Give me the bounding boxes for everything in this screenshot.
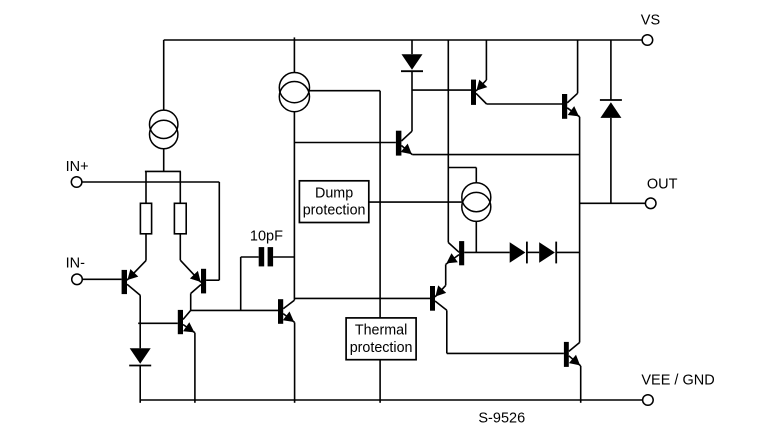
wire first stage output xyxy=(191,309,278,311)
transistor Q10 xyxy=(564,342,581,367)
wire Q4 emitter drop xyxy=(294,322,296,402)
transistor Q8 xyxy=(446,241,465,265)
wire collector node vertical xyxy=(190,294,192,311)
wire Q5 emitter to output node xyxy=(412,154,579,156)
wire CS2 bottom lead xyxy=(293,112,295,301)
svg-text:OUT: OUT xyxy=(647,177,678,193)
wire CS2 top lead xyxy=(293,37,295,72)
svg-text:protection: protection xyxy=(303,203,366,219)
wire long vertical to Q8 collector xyxy=(447,40,449,243)
wire Q6 emitter top lead xyxy=(485,40,487,80)
wire D3 top lead xyxy=(610,40,612,100)
current source I1 xyxy=(150,110,178,149)
wire CS2 to protection drop xyxy=(310,90,381,92)
svg-text:S-9526: S-9526 xyxy=(478,411,525,427)
wire Q1 collector drop xyxy=(139,295,141,348)
resistor R1 xyxy=(140,203,151,234)
svg-text:protection: protection xyxy=(350,340,413,356)
transistor Q9 xyxy=(430,285,447,310)
wire D2 top lead xyxy=(411,40,413,54)
svg-text:VEE / GND: VEE / GND xyxy=(641,373,714,389)
wire D4 to D5 xyxy=(527,251,539,253)
wire Q3 base xyxy=(138,322,178,324)
wire Q9 collector drop xyxy=(446,310,448,353)
wire D5 to output node xyxy=(556,251,579,253)
svg-text:10pF: 10pF xyxy=(250,229,283,245)
wire C1 right lead xyxy=(273,256,294,258)
label VS xyxy=(641,13,660,29)
wire IN+ lead xyxy=(82,181,219,183)
svg-text:IN+: IN+ xyxy=(66,159,89,175)
terminal IN+ xyxy=(71,177,82,188)
wire CS3 top stub horizontal xyxy=(448,167,476,169)
label OUT xyxy=(647,177,678,193)
wire tee left stub to R1 xyxy=(145,171,147,203)
wire Q7 collector top lead xyxy=(577,40,579,93)
label IN- xyxy=(66,255,86,271)
transistor Q6 xyxy=(471,80,487,105)
terminal IN- xyxy=(72,274,83,285)
wire Q8 base to diodes xyxy=(464,251,510,253)
svg-text:Thermal: Thermal xyxy=(355,323,407,339)
terminal VS xyxy=(642,35,653,46)
wire D3 bottom lead xyxy=(610,118,612,203)
label VEE / GND xyxy=(641,373,714,389)
wire D1 to ground rail xyxy=(139,366,141,403)
wire D2 to Q5 collector xyxy=(411,71,413,131)
wire Q5 base xyxy=(294,142,396,144)
diode D4 xyxy=(510,242,527,264)
label IN+ xyxy=(66,159,89,175)
wire CS3 bottom lead xyxy=(475,221,477,252)
terminal OUT xyxy=(645,198,656,209)
wire IN- lead to Q1 base xyxy=(82,278,121,280)
block dump protection xyxy=(299,181,368,223)
wire tee right stub to R2 xyxy=(179,171,181,203)
wire CS1 top lead xyxy=(163,40,165,110)
block thermal protection xyxy=(346,318,416,360)
diode D5 xyxy=(539,242,556,264)
wire IN+ drop to Q2 base xyxy=(218,182,220,280)
wire Q3 emitter drop xyxy=(194,333,196,403)
transistor Q5 xyxy=(396,131,412,156)
terminal VEE / GND xyxy=(643,395,654,406)
wire Q6 collector to Q7 base xyxy=(487,103,562,105)
wire top supply rail VS xyxy=(164,39,643,41)
transistor Q1 xyxy=(122,261,146,296)
wire R1 bottom lead xyxy=(145,234,147,261)
wire protection drop vertical xyxy=(379,91,381,318)
resistor R2 xyxy=(174,203,186,234)
wire OUT lead xyxy=(580,202,646,204)
wire Q8 emitter link xyxy=(445,264,447,285)
wire Q9 base xyxy=(294,297,430,299)
wire bottom rail VEE xyxy=(140,399,642,401)
svg-text:VS: VS xyxy=(641,13,660,29)
capacitor C1 10pF xyxy=(259,247,273,266)
wire Q6 base xyxy=(412,89,471,91)
transistor Q4 xyxy=(278,299,295,324)
wire input tee bar xyxy=(145,170,181,172)
svg-text:IN-: IN- xyxy=(66,255,86,271)
diode D2 xyxy=(401,54,423,71)
diode D3 xyxy=(600,100,622,118)
wire CS3 top stub vertical xyxy=(475,168,477,183)
wire dump protection output xyxy=(369,201,462,203)
svg-text:Dump: Dump xyxy=(315,185,353,201)
wire R2 bottom lead xyxy=(179,234,181,260)
wire CS1 bottom lead xyxy=(163,149,165,172)
wire Q10 emitter drop xyxy=(580,366,582,403)
transistor Q7 xyxy=(562,93,580,119)
wire output node vertical xyxy=(579,117,581,343)
transistor Q2 xyxy=(180,260,206,293)
current source I2 xyxy=(279,73,309,112)
wire C1 branch drop xyxy=(240,257,242,310)
wire Q10 base xyxy=(447,352,564,354)
wire C1 left lead xyxy=(241,256,259,258)
diode D1 xyxy=(129,348,151,365)
current source I3 xyxy=(462,183,491,222)
transistor Q3 xyxy=(178,310,195,334)
label 10pF xyxy=(250,229,283,245)
wire Q2 base stub xyxy=(206,279,219,281)
wire thermal box to ground xyxy=(379,360,381,403)
label S-9526 xyxy=(478,411,525,427)
